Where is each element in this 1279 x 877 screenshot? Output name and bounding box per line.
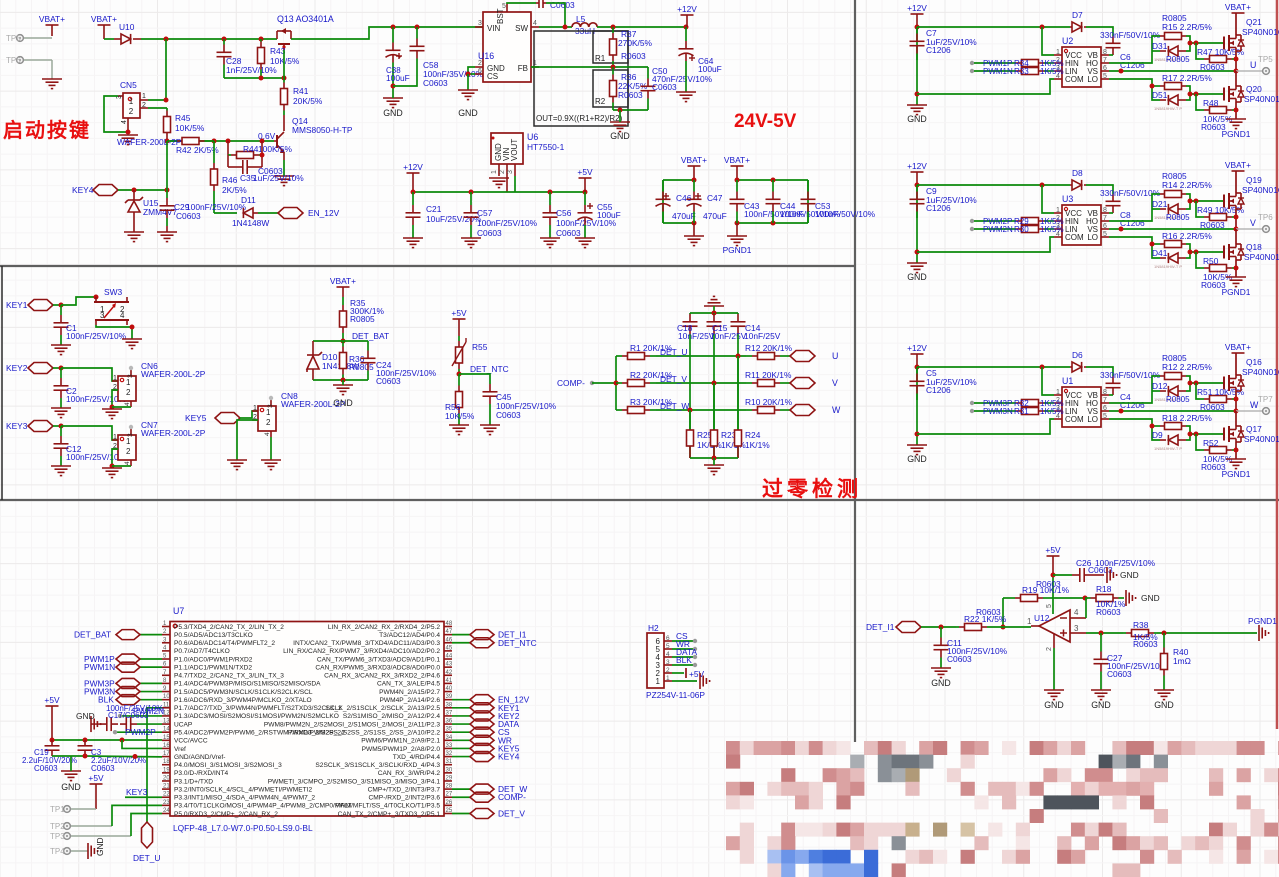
svg-text:P3.2/INT0/SCLK_4/SCL_4/PWMETI/: P3.2/INT0/SCLK_4/SCL_4/PWMETI/PWMETI2 — [174, 786, 312, 793]
ground group2 PGND1 — [727, 223, 747, 246]
value R23 — [721, 440, 746, 450]
svg-text:10: 10 — [163, 694, 170, 700]
svg-text:KEY1: KEY1 — [6, 300, 28, 310]
ic U7 microcontroller LQFP-48 — [162, 621, 453, 818]
resistor R18 gate bottom — [1160, 423, 1186, 430]
svg-text:P3.1/D+/TXD: P3.1/D+/TXD — [174, 778, 213, 785]
ground U1 — [907, 445, 927, 455]
package R36 sense — [349, 362, 374, 372]
svg-text:6: 6 — [478, 68, 482, 75]
svg-text:CAN_RX/PWM5_3/RXD3/ADC8/AD0/P0: CAN_RX/PWM5_3/RXD3/ADC8/AD0/P0.0 — [315, 664, 440, 671]
power flag +5V mcu — [44, 695, 60, 705]
connector CN7 — [112, 425, 136, 466]
wire C15 down — [713, 335, 715, 458]
resistor R31 — [1012, 408, 1048, 415]
power flag VBAT+ (group1) — [681, 155, 707, 165]
op-amp U12 — [1031, 610, 1086, 648]
ground below TP6 — [42, 79, 62, 89]
svg-text:GND: GND — [610, 131, 630, 141]
svg-text:4: 4 — [120, 311, 125, 320]
capacitor C6 — [1106, 36, 1121, 55]
svg-text:21: 21 — [163, 784, 170, 790]
pin3 U12 — [1074, 624, 1079, 633]
label R49 — [1197, 205, 1245, 215]
label TP6 — [1258, 213, 1273, 222]
junction rail C56 — [548, 190, 553, 195]
ground C38 — [383, 86, 403, 108]
wire HO U3 — [1109, 194, 1160, 221]
svg-text:32: 32 — [446, 751, 453, 757]
svg-text:5: 5 — [666, 643, 670, 650]
label D12 — [1152, 381, 1168, 391]
label R46 — [222, 175, 238, 185]
section divider vertical — [854, 0, 856, 742]
net label PWM1P — [983, 59, 1012, 68]
svg-text:SP40N01G: SP40N01G — [1244, 252, 1279, 262]
ground side TP4 — [88, 843, 98, 859]
value R46 — [222, 185, 247, 195]
wire pull top U1 — [1196, 383, 1200, 399]
junction SW3 gnd — [130, 325, 135, 330]
wire gate bottom to Q U2 — [1190, 93, 1224, 95]
junction vcc b — [83, 738, 88, 743]
svg-text:VCC/AVCC: VCC/AVCC — [174, 738, 208, 745]
wire row out W — [786, 409, 790, 411]
junction gate pull top U1 — [1194, 381, 1199, 386]
pin number left 4 U3 — [1056, 231, 1060, 238]
pin name HIN U3 — [1065, 217, 1079, 226]
ground CN8 pin2 — [227, 460, 247, 470]
power flag +12V (ldo in) — [403, 162, 423, 172]
svg-text:20: 20 — [163, 775, 170, 781]
package R48 R0603 — [1201, 122, 1226, 132]
svg-text:PWM6/PWM1N_2/A9/P2.1: PWM6/PWM1N_2/A9/P2.1 — [361, 738, 440, 745]
label C11 — [947, 638, 962, 648]
value R31 — [1040, 407, 1064, 416]
value C58 — [423, 69, 484, 79]
svg-text:3: 3 — [478, 20, 482, 27]
power flag +5V ntc — [451, 308, 467, 318]
wire vcc to pin U2 — [1042, 27, 1054, 55]
value CN6 WAFER — [141, 369, 206, 379]
wire gate top to Q U2 — [1190, 42, 1224, 44]
label C53 — [815, 201, 831, 211]
value C57 — [477, 218, 538, 228]
capacitor C43 — [730, 180, 745, 223]
svg-text:100uF: 100uF — [698, 64, 722, 74]
value CN8 WAFER — [281, 399, 346, 409]
ground C2 — [51, 408, 71, 418]
capacitor C19 — [45, 740, 60, 756]
label Q16 — [1246, 357, 1262, 367]
svg-text:INTX/CAN2_TX/PWM8_3/TXD4/ADC11: INTX/CAN2_TX/PWM8_3/TXD4/ADC11/AD3/P0.3 — [293, 640, 440, 647]
wire CN8 pin2 gnd — [237, 420, 258, 460]
svg-text:COM: COM — [1065, 75, 1084, 84]
wire row V — [656, 382, 746, 384]
label SW3 — [104, 287, 122, 297]
input stub PWM3P — [970, 401, 974, 405]
ground C21 — [403, 238, 423, 248]
wire U7 pin47 — [452, 634, 470, 636]
wire VS out U2 — [1109, 70, 1236, 72]
junction c11 — [939, 625, 944, 630]
label GND U3 — [907, 272, 927, 282]
net label KEY5 at U7 — [498, 743, 520, 753]
junction KEY4 C29 — [165, 188, 170, 193]
connector H2 — [647, 633, 672, 688]
package R38 — [1133, 639, 1158, 649]
wire CN5 frame loop — [104, 96, 128, 132]
value R44 — [258, 144, 293, 154]
pin number right 5 U1 — [1103, 413, 1107, 420]
svg-text:7: 7 — [1103, 215, 1107, 222]
wire SW3 to gnd — [96, 325, 132, 339]
svg-text:TP2: TP2 — [50, 822, 65, 831]
svg-text:C0603: C0603 — [376, 376, 401, 386]
label R10 — [745, 397, 793, 407]
svg-text:DET_I1: DET_I1 — [866, 622, 895, 632]
wire KEY3 to CN7 — [61, 426, 118, 440]
wire vcc rail U2 — [917, 26, 1070, 28]
junction group2 b1 — [735, 221, 740, 226]
junction 5v c26 — [1051, 573, 1056, 578]
label PGND1 U2 — [1222, 129, 1251, 139]
svg-text:1: 1 — [113, 375, 117, 382]
svg-text:CN5: CN5 — [120, 80, 137, 90]
net flag V phase — [790, 378, 815, 389]
svg-text:8: 8 — [1103, 207, 1107, 214]
svg-text:TP1: TP1 — [50, 805, 65, 814]
wire PWM2N net — [120, 715, 162, 717]
wire KEY4 vertical — [166, 141, 168, 190]
capacitor C18 — [683, 313, 698, 335]
svg-text:+12V: +12V — [403, 162, 423, 172]
label C47 — [707, 193, 723, 203]
svg-text:TP5: TP5 — [6, 34, 21, 43]
net flag CS at U7 — [470, 727, 494, 737]
svg-text:46: 46 — [446, 637, 453, 643]
pin number right 6 U3 — [1103, 223, 1107, 230]
label C6 — [1120, 52, 1131, 62]
package C58 — [423, 78, 448, 88]
svg-text:1K/5%: 1K/5% — [1040, 67, 1064, 76]
value C8 330nF — [1100, 188, 1161, 198]
svg-text:14: 14 — [163, 727, 170, 733]
wire zc bottom rail — [690, 457, 738, 459]
net label W out — [1250, 400, 1259, 410]
label D7 — [1072, 10, 1083, 20]
package C35 — [258, 166, 283, 176]
wire U7 pin25 — [452, 812, 470, 814]
svg-text:P1.5/ADC5/PWM3N/SCLK/S1CLK/S2C: P1.5/ADC5/PWM3N/SCLK/S1CLK/S2CLK/SCL — [174, 689, 313, 696]
svg-text:TXD_4/RD/P4.4: TXD_4/RD/P4.4 — [393, 754, 441, 761]
power flag +12V (buck out) — [677, 4, 697, 14]
ground group1 — [684, 223, 704, 246]
diode D8 — [1070, 180, 1086, 190]
svg-text:C0603: C0603 — [477, 228, 502, 238]
junction CN5 pin1 — [164, 98, 169, 103]
power flag +5V H2 — [689, 669, 705, 679]
pin4 CN8 — [264, 432, 271, 436]
svg-text:TP3: TP3 — [50, 832, 65, 841]
power flag +5V (ldo out) — [577, 167, 593, 177]
net flag DET_W at U7 — [470, 784, 494, 794]
svg-text:U6: U6 — [527, 132, 538, 142]
net flag DATA at U7 — [470, 719, 494, 729]
diode D6 — [1070, 362, 1086, 372]
label TP5 — [6, 34, 21, 43]
ground C27 — [1091, 690, 1111, 700]
wire R2 bottom — [613, 109, 648, 111]
svg-text:33: 33 — [446, 743, 453, 749]
wire zc top rail — [690, 312, 738, 314]
label TP7 — [1258, 395, 1273, 404]
value H2 PZ254V-11-06P — [646, 690, 705, 700]
label R23 — [721, 430, 737, 440]
svg-text:2: 2 — [266, 418, 271, 427]
value C29 — [186, 202, 247, 212]
label C58 — [423, 60, 439, 70]
wire PWM2P — [974, 220, 1012, 222]
net label PWM1P at U7 — [84, 654, 115, 664]
wire PWM3N — [974, 410, 1012, 412]
pin name VIN U6 — [502, 147, 511, 161]
net label KEY4 at U7 — [498, 752, 520, 762]
wire C6 to VB U2 — [1109, 54, 1113, 56]
pin number right 6 U2 — [1103, 65, 1107, 72]
svg-text:C1206: C1206 — [1120, 400, 1145, 410]
resistor R36 sense — [340, 341, 347, 380]
label C24 — [376, 360, 392, 370]
wire COM return U2 — [917, 79, 1054, 94]
power flag VBAT+ (left) — [39, 14, 65, 24]
svg-text:PWM2P: PWM2P — [125, 727, 156, 737]
resistor R14 gate top — [1160, 191, 1186, 198]
power bar VBAT+ sense — [337, 287, 350, 297]
label GND sense — [333, 398, 353, 408]
wire HO U2 — [1109, 36, 1160, 63]
wire U7 pin9 left — [140, 691, 162, 693]
wire vref row — [122, 740, 162, 748]
ground zerocross bottom — [704, 458, 724, 475]
power bar +5V mcu — [46, 706, 59, 740]
value R18 ref — [1096, 599, 1126, 609]
svg-text:S2SCLK_3/S1SCLK_3/SCLK/RXD_4/P: S2SCLK_3/S1SCLK_3/SCLK/RXD_4/P4.3 — [315, 762, 440, 769]
wire rp out U1 — [1048, 402, 1054, 404]
net flag U phase — [790, 351, 815, 362]
package C50 — [652, 82, 677, 92]
svg-text:PGND1: PGND1 — [1222, 287, 1251, 297]
resistor R51 gate pull top — [1200, 396, 1236, 403]
svg-text:D6: D6 — [1072, 350, 1083, 360]
ground Q14 emitter — [274, 160, 294, 186]
value R52 — [1203, 454, 1233, 464]
junction vcc drop U2 — [1040, 25, 1045, 30]
package C59 C0603 — [550, 0, 575, 10]
ground C11 — [931, 668, 951, 678]
wire U7 pin35 — [452, 731, 470, 733]
junction vcc a — [50, 738, 55, 743]
wire source top U2 — [1235, 51, 1237, 71]
value R32 — [1040, 399, 1064, 408]
svg-text:VBAT+: VBAT+ — [91, 14, 117, 24]
svg-text:10K/5%: 10K/5% — [270, 56, 300, 66]
value C12 — [66, 452, 127, 462]
junction gnd mcu b — [133, 754, 138, 759]
pin name LO U1 — [1087, 415, 1098, 424]
package R49 R0603 — [1200, 220, 1225, 230]
label R36 sense — [349, 354, 365, 364]
resistor R17 gate bottom — [1160, 83, 1186, 90]
svg-text:Q19: Q19 — [1246, 175, 1262, 185]
label Q14 — [292, 116, 308, 126]
pin number left 2 U1 — [1056, 397, 1060, 404]
resistor R29 — [1012, 218, 1048, 225]
net label H2 CS — [676, 631, 688, 641]
pin name COM U3 — [1065, 233, 1084, 242]
capacitor C24 — [361, 341, 376, 380]
wire LO U1 — [1109, 419, 1160, 440]
svg-text:1: 1 — [142, 93, 146, 100]
svg-text:P1.1/ADC1/PWM1N/TXD2: P1.1/ADC1/PWM1N/TXD2 — [174, 664, 252, 671]
ground side C26 — [1107, 567, 1117, 583]
ground U3 — [907, 263, 927, 273]
label C43 — [744, 201, 760, 211]
junction rail x166 — [164, 37, 169, 42]
wire KEY2 row — [53, 367, 61, 369]
svg-text:+5V: +5V — [577, 167, 593, 177]
wire pin4 up — [1085, 598, 1087, 618]
resistor R3 — [616, 407, 656, 414]
label R24 — [745, 430, 761, 440]
svg-text:过零检测: 过零检测 — [762, 477, 862, 501]
wire gate top to Q U3 — [1190, 200, 1224, 202]
diode D11 — [243, 208, 258, 218]
svg-text:EN_12V: EN_12V — [308, 208, 340, 218]
wire gate net bottom — [224, 77, 284, 79]
label R48 — [1203, 98, 1219, 108]
svg-text:SP40N01G: SP40N01G — [1244, 94, 1279, 104]
wire rn out U3 — [1048, 228, 1054, 230]
svg-text:100nF/25V/10%: 100nF/25V/10% — [477, 218, 538, 228]
net label PWM2N — [133, 706, 164, 716]
label D6 — [1072, 350, 1083, 360]
svg-text:C1206: C1206 — [926, 385, 951, 395]
svg-text:P3.3/INT1/MISO_4/SDA_4/PWM4N_4: P3.3/INT1/MISO_4/SDA_4/PWM4N_4/PWM7_2 — [174, 795, 315, 802]
label R18 — [1162, 413, 1212, 423]
label R36 — [621, 72, 637, 82]
label R17 — [1162, 73, 1212, 83]
svg-text:2K/5%: 2K/5% — [194, 145, 219, 155]
svg-text:R49 10K/5%: R49 10K/5% — [1197, 205, 1245, 215]
svg-text:PWM4P_2/A14/P2.6: PWM4P_2/A14/P2.6 — [380, 697, 441, 704]
value D11 1N4148W — [232, 218, 269, 228]
label C3 — [91, 748, 102, 757]
svg-text:CMP+/TXD_2/INT3/P3.7: CMP+/TXD_2/INT3/P3.7 — [368, 786, 441, 793]
svg-text:PGND1: PGND1 — [1248, 616, 1277, 626]
svg-text:LIN_RX/CAN2_RX/PWM7_3/RXD4/ADC: LIN_RX/CAN2_RX/PWM7_3/RXD4/ADC10/AD2/P0.… — [283, 648, 440, 655]
svg-text:DET_V: DET_V — [660, 374, 687, 384]
package R37 — [621, 51, 646, 61]
power flag VBAT+ U3 — [1225, 160, 1251, 170]
svg-text:COM: COM — [1065, 415, 1084, 424]
wire drain bottom U3 — [1235, 229, 1237, 244]
svg-text:R0805: R0805 — [1166, 213, 1190, 222]
net flag KEY2 at U7 — [470, 711, 494, 721]
svg-text:GND: GND — [907, 272, 927, 282]
label Q20 — [1246, 84, 1262, 94]
wire pin2 gnd — [1053, 648, 1055, 690]
wire Q13 to buck input — [291, 27, 483, 39]
package C4 C1206 — [1120, 400, 1145, 410]
junction group1 bottom — [692, 221, 697, 226]
wire rn out U2 — [1048, 70, 1054, 72]
label C44 — [780, 201, 796, 211]
pin number 6 — [478, 68, 482, 75]
svg-text:34: 34 — [446, 735, 453, 741]
svg-text:U1: U1 — [1062, 376, 1073, 386]
value D10 1N4148W — [322, 361, 359, 371]
label C14 — [745, 323, 761, 333]
pin3 CN6 — [127, 374, 134, 378]
label R35 — [350, 298, 366, 308]
label R14 — [1162, 180, 1212, 190]
svg-text:V: V — [832, 378, 838, 388]
package R36 — [618, 90, 643, 100]
net flag PWM3P at U7 — [116, 678, 140, 688]
svg-text:C57: C57 — [477, 208, 493, 218]
svg-text:2: 2 — [478, 60, 482, 67]
svg-text:16: 16 — [163, 743, 170, 749]
capacitor C59 bootstrap — [536, 0, 546, 8]
net label DET_W at U7 — [498, 784, 527, 794]
input stub PWM2N — [970, 227, 974, 231]
net label DET_I1 in — [866, 622, 895, 632]
junction C64 top — [684, 25, 689, 30]
pin5 U12 — [1046, 604, 1053, 608]
svg-text:5: 5 — [1103, 231, 1107, 238]
value C64 — [698, 64, 722, 74]
svg-text:GND: GND — [1154, 700, 1174, 710]
junction gate pull bot U1 — [1194, 432, 1199, 437]
svg-text:3: 3 — [127, 374, 134, 378]
svg-text:H2: H2 — [648, 623, 659, 633]
value C2 — [66, 394, 127, 404]
wire KEY3 row — [53, 425, 61, 427]
svg-text:1: 1 — [126, 437, 131, 446]
svg-text:5: 5 — [1046, 604, 1053, 608]
pin number 1 — [533, 60, 537, 67]
label C18 — [677, 323, 693, 333]
label GND divider — [610, 131, 630, 141]
tiny marking top U2 — [1154, 57, 1182, 62]
wire CN5 pin4 stub — [127, 125, 129, 132]
label R43 — [270, 46, 286, 56]
capacitor C26 — [1072, 568, 1104, 582]
wire zc top stem — [713, 306, 715, 313]
wire H2 BLK — [672, 664, 695, 666]
net label DET_BAT — [352, 331, 389, 341]
wire LO U2 — [1109, 79, 1160, 100]
svg-text:VBAT+: VBAT+ — [724, 155, 750, 165]
net flag KEY5 — [215, 413, 240, 424]
power bar VBAT+ U1 — [1232, 352, 1245, 354]
svg-text:ZMM4V7: ZMM4V7 — [143, 207, 177, 217]
junction gate node — [282, 76, 287, 81]
label U7 — [173, 606, 184, 616]
wire drain top U2 — [1235, 13, 1237, 35]
net label W phase — [832, 405, 841, 415]
